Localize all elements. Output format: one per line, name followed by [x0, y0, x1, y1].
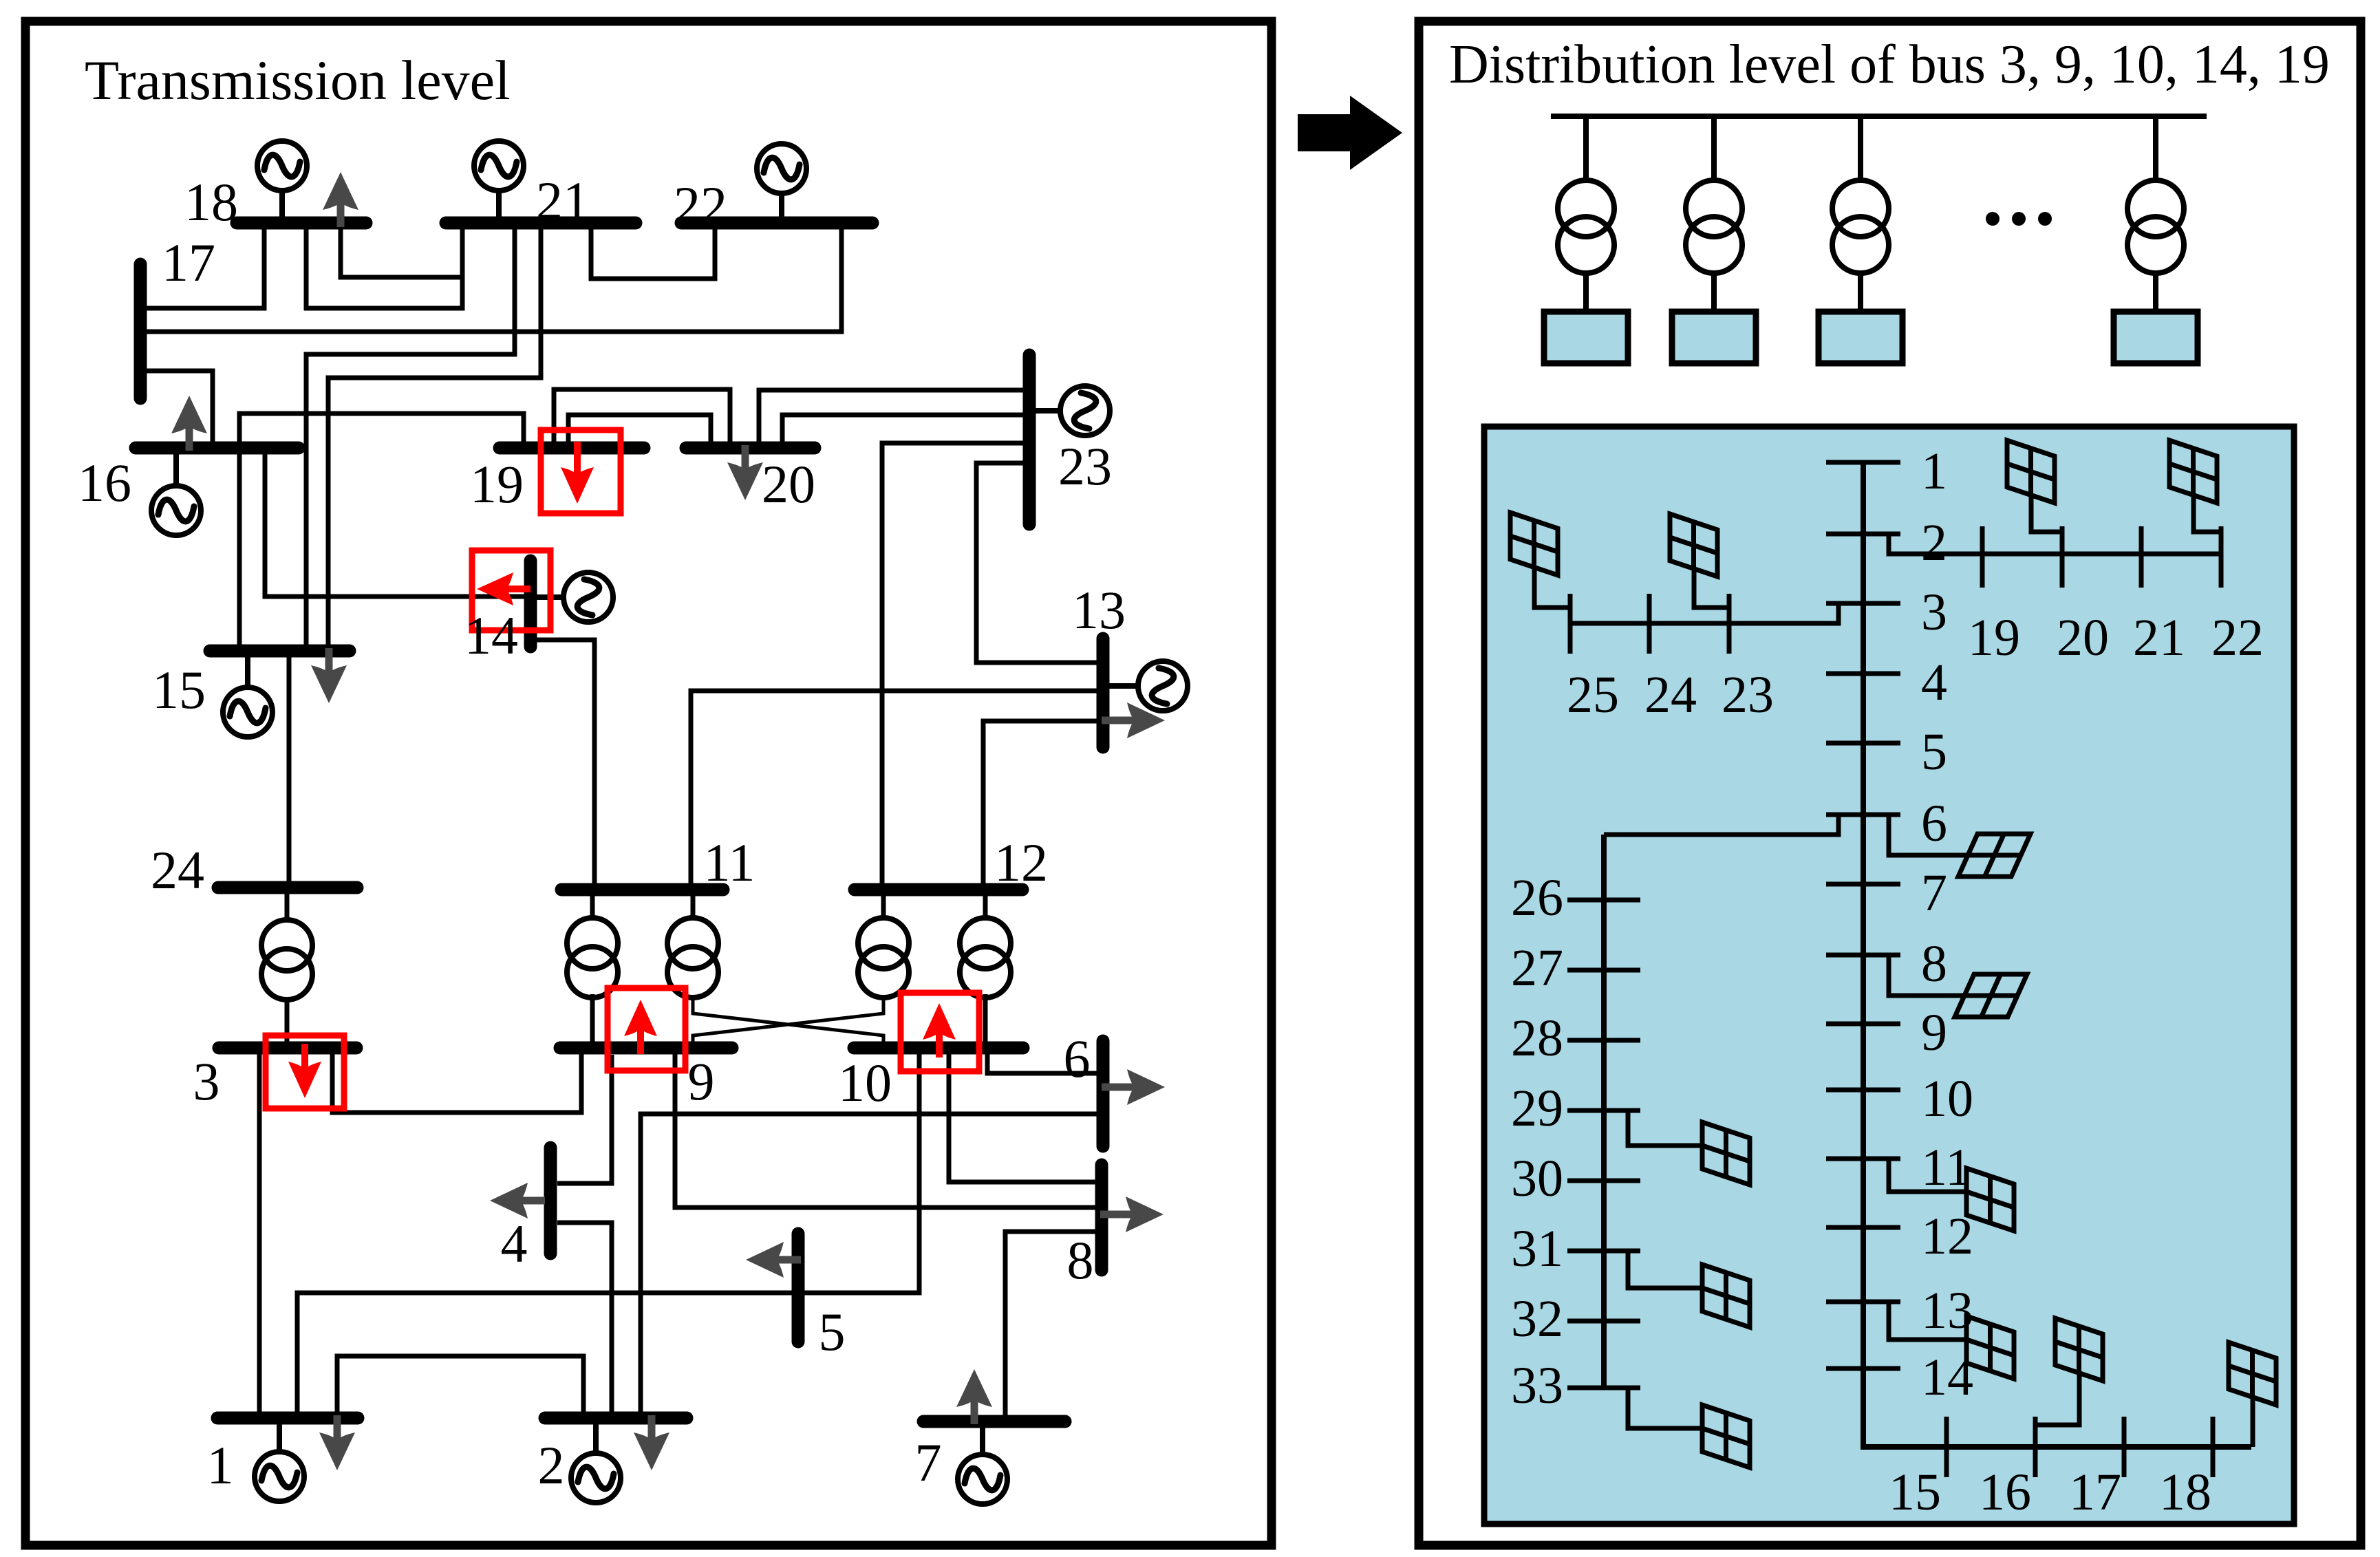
svg-text:2: 2: [1921, 514, 1947, 572]
svg-text:1: 1: [1921, 442, 1947, 500]
svg-text:15: 15: [1889, 1463, 1941, 1521]
svg-text:18: 18: [2159, 1463, 2211, 1521]
svg-text:9: 9: [688, 1051, 715, 1111]
svg-text:33: 33: [1511, 1357, 1563, 1415]
svg-text:9: 9: [1921, 1004, 1947, 1062]
svg-text:19: 19: [1968, 609, 2020, 667]
svg-text:Transmission level: Transmission level: [85, 49, 511, 111]
svg-text:11: 11: [1921, 1139, 1971, 1196]
svg-text:17: 17: [2069, 1463, 2121, 1521]
svg-text:6: 6: [1921, 795, 1947, 852]
svg-text:3: 3: [193, 1051, 220, 1111]
svg-text:28: 28: [1511, 1009, 1563, 1067]
svg-text:16: 16: [1979, 1463, 2031, 1521]
svg-text:20: 20: [762, 454, 815, 514]
svg-text:21: 21: [2133, 609, 2185, 667]
svg-text:19: 19: [470, 454, 524, 514]
svg-text:31: 31: [1511, 1220, 1563, 1278]
svg-text:7: 7: [915, 1432, 942, 1492]
svg-text:22: 22: [2211, 609, 2264, 667]
svg-text:4: 4: [1921, 654, 1947, 711]
svg-text:18: 18: [184, 172, 238, 232]
svg-text:21: 21: [536, 171, 590, 230]
svg-text:25: 25: [1567, 666, 1619, 724]
svg-text:13: 13: [1072, 580, 1126, 640]
svg-text:16: 16: [78, 453, 131, 513]
svg-text:22: 22: [674, 175, 727, 235]
svg-text:1: 1: [207, 1435, 234, 1495]
svg-text:20: 20: [2057, 609, 2109, 667]
svg-text:15: 15: [152, 660, 206, 720]
svg-text:32: 32: [1511, 1290, 1563, 1348]
svg-text:10: 10: [838, 1053, 892, 1113]
svg-text:3: 3: [1921, 583, 1947, 641]
svg-text:24: 24: [151, 840, 204, 900]
svg-text:8: 8: [1067, 1230, 1094, 1290]
svg-text:17: 17: [162, 233, 215, 292]
svg-text:23: 23: [1058, 436, 1112, 496]
svg-text:30: 30: [1511, 1150, 1563, 1207]
svg-text:26: 26: [1511, 869, 1563, 927]
svg-text:12: 12: [994, 833, 1048, 892]
svg-text:10: 10: [1921, 1070, 1973, 1128]
svg-text:5: 5: [1921, 723, 1947, 781]
svg-text:27: 27: [1511, 939, 1563, 997]
svg-text:29: 29: [1511, 1080, 1563, 1137]
svg-text:2: 2: [538, 1435, 565, 1495]
svg-text:24: 24: [1644, 666, 1697, 724]
svg-text:5: 5: [819, 1302, 846, 1362]
svg-text:6: 6: [1064, 1029, 1091, 1088]
svg-text:23: 23: [1722, 666, 1774, 724]
svg-text:8: 8: [1921, 935, 1947, 993]
svg-text:7: 7: [1921, 864, 1947, 922]
svg-text:14: 14: [464, 605, 518, 665]
svg-text:4: 4: [501, 1214, 528, 1274]
svg-text:11: 11: [703, 833, 755, 892]
svg-text:Distribution level of bus 3, 9: Distribution level of bus 3, 9, 10, 14, …: [1449, 34, 2330, 95]
